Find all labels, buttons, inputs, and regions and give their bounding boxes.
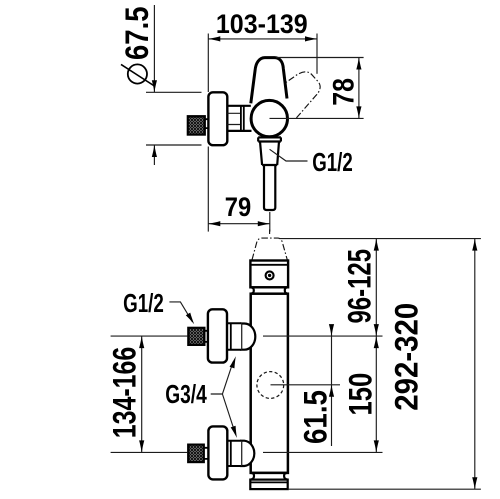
svg-text:G3/4: G3/4 (165, 379, 207, 409)
reference line lower flange center (111, 451, 383, 453)
svg-text:134-166: 134-166 (106, 347, 142, 439)
cap bottom line (250, 286, 288, 288)
dim 103-139 extension left (207, 34, 209, 93)
base waist left (251, 473, 255, 480)
dim line 78 (358, 58, 360, 119)
dim line 292-320 (474, 239, 476, 490)
base ring inner line (250, 481, 287, 483)
lever handle outline (251, 58, 287, 104)
dim 78 extension bottom (center line) (270, 117, 364, 119)
screw circle (266, 271, 274, 279)
phantom handle tip front view (252, 238, 287, 260)
column body (251, 294, 288, 473)
lower wall flange front (208, 426, 227, 479)
upper tab (204, 331, 208, 342)
reference line base bottom (288, 488, 481, 490)
dim line 61.5 (331, 326, 333, 447)
svg-text:G1/2: G1/2 (312, 147, 353, 177)
pipe double divider (241, 106, 244, 131)
tab between knurl and flange (205, 119, 209, 128)
knurl nut side view (188, 116, 205, 134)
phantom lever rotated 46deg (268, 64, 326, 121)
dim line 96-125 (375, 239, 377, 337)
dim line 79 (208, 223, 269, 225)
svg-text:292-320: 292-320 (388, 303, 424, 411)
dim 79 extension right (269, 212, 271, 232)
upper union bump (241, 324, 255, 350)
pipe between flange and body (227, 106, 251, 131)
outlet pipe (264, 165, 275, 210)
base ring (250, 480, 287, 490)
svg-text:103-139: 103-139 (216, 9, 308, 39)
dim 78 extension top (276, 57, 363, 59)
svg-text:67.5: 67.5 (119, 7, 155, 61)
dia 67.5 reference line bottom (146, 144, 202, 146)
lever handle white fill (251, 58, 287, 119)
collar band below circle (258, 137, 281, 141)
screw dot (268, 274, 271, 277)
lower union pipe (227, 441, 241, 466)
upper union pipe divider (230, 323, 232, 349)
body bottom line (251, 472, 287, 474)
lower union pipe divider (230, 441, 232, 466)
svg-text:78: 78 (328, 78, 361, 106)
reference line top (phantom top) (280, 238, 481, 240)
lower union bump (241, 441, 254, 466)
leader G1/2 bottom view (169, 302, 192, 322)
svg-text:79: 79 (225, 192, 251, 222)
dia 67.5 reference line top (146, 91, 202, 93)
cartridge body circle (251, 100, 287, 136)
dim 103-139 extension right (316, 34, 318, 74)
reference line circle center (271, 384, 341, 386)
diameter symbol (128, 64, 147, 83)
lower tab (204, 448, 209, 459)
svg-text:96-125: 96-125 (342, 249, 378, 324)
shower hose outlet dashed circle (257, 372, 284, 399)
cap inner line (250, 264, 288, 266)
base waist right (284, 473, 288, 480)
reference line upper flange center (111, 335, 383, 337)
svg-text:61.5: 61.5 (298, 390, 334, 444)
upper union pipe (227, 323, 241, 349)
leader G1/2 top view (270, 149, 308, 161)
dim line 103-139 (208, 38, 317, 40)
neck right (285, 287, 288, 293)
upper knurl nut (188, 328, 204, 345)
cap with screw (250, 261, 288, 288)
dim line 134-166 (141, 336, 143, 452)
dim 79 extension left (207, 147, 209, 232)
leader G3/4 (211, 362, 235, 431)
svg-text:G1/2: G1/2 (123, 288, 164, 318)
lower knurl nut (188, 445, 204, 463)
phantom apex tick (269, 230, 271, 235)
dia 67.5 dim line (153, 5, 155, 165)
svg-text:150: 150 (342, 373, 378, 416)
outlet trapezoid (260, 142, 279, 166)
neck left (251, 287, 254, 293)
pipe inner lines (227, 113, 241, 124)
wall flange side view (208, 92, 227, 145)
dim line 150 (375, 336, 377, 452)
upper wall flange front (208, 309, 227, 362)
